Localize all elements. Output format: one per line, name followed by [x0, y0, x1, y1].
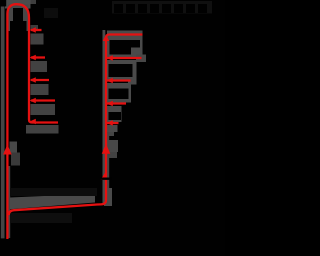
rail1 branch1 — [31, 29, 42, 31]
band C stub right of branch3 — [128, 78, 137, 85]
rail2 band E gray — [107, 125, 118, 132]
ghost blob top-middle — [44, 8, 58, 18]
left-rail band 3 — [31, 84, 49, 95]
band B black text box — [109, 64, 133, 77]
arrowhead rail1 corner — [30, 119, 36, 124]
red geometry — [7, 4, 142, 239]
gray around left up-arrow — [10, 142, 18, 153]
rail2 band D gray — [107, 106, 122, 122]
rail1 branch4 — [31, 99, 55, 101]
left-rail bottom band — [26, 125, 59, 134]
band D black text box — [109, 112, 122, 120]
arrowhead rail2 top corner (up) — [103, 35, 110, 42]
rail1 branch3 — [31, 79, 49, 81]
arrowhead rail2 b2 — [107, 55, 113, 60]
band A black text box — [110, 40, 141, 48]
up arrow on rail2 — [102, 144, 111, 154]
red bulge at rail2 tick — [101, 171, 107, 180]
gray around rail2 bottom curve — [104, 188, 112, 206]
rail2 branch4 — [107, 102, 126, 104]
inside-arch gray ring — [8, 5, 29, 32]
left margin gray column — [1, 6, 5, 238]
ghost text band above bottom line — [10, 188, 97, 196]
arrowhead rail1 b3 — [30, 77, 36, 82]
left-rail band 1 — [31, 34, 44, 45]
ghost text band top-right — [112, 1, 212, 14]
left line right sliver — [8, 166, 10, 238]
arrowhead rail1 b4 — [30, 98, 36, 103]
arrowhead rail2 b3 — [107, 78, 113, 83]
rail2 with top corner and bottom curve into bottom line — [9, 35, 143, 216]
up arrow on left line — [3, 145, 12, 155]
arrowhead rail2 b4 — [107, 101, 113, 106]
band C black text box — [109, 89, 129, 100]
rail2 branch5 — [107, 122, 119, 124]
rail2 branch3 — [107, 79, 131, 81]
left-rail band 4 — [31, 104, 56, 115]
left-rail band 2 — [31, 61, 48, 72]
rail2 branch2 — [107, 57, 142, 59]
rail2 right sliver — [107, 128, 109, 204]
arrowhead rail1 b1 — [30, 27, 36, 32]
black corner box — [0, 0, 6, 6]
bottom slanted gray band above bottom line — [10, 194, 95, 210]
rail2 band B gray — [107, 60, 137, 80]
gray above left-rail branch1 — [31, 25, 39, 30]
rail2 left gray strip — [103, 30, 106, 204]
rail2 band A gray — [107, 31, 143, 58]
arrowhead rail2 b5 — [107, 120, 113, 125]
arrowhead rail1 b2 — [30, 55, 36, 60]
rail2 band C gray — [107, 83, 131, 103]
black tick on rail2 — [100, 178, 112, 180]
ghost text band below bottom line — [10, 213, 72, 223]
gray slab right of branch2 — [136, 55, 146, 63]
top-left gray band — [5, 0, 31, 9]
rail1 branch2 — [31, 56, 45, 58]
inside-arch black text blob — [13, 8, 23, 21]
gray around rail2 up-arrow — [107, 140, 119, 152]
inside-arch black column — [9, 31, 28, 122]
left line + arch + rail1 — [7, 4, 58, 239]
